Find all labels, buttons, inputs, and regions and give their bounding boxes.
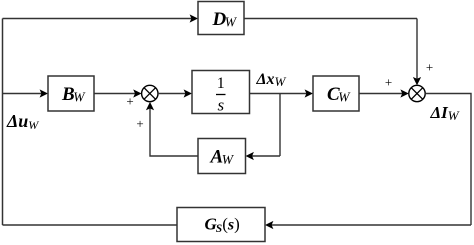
wire junction S2 output right and down (425, 94, 471, 226)
block D_W (198, 2, 244, 35)
block G_S(s) (177, 208, 265, 242)
svg-text:GS(s): GS(s) (205, 215, 240, 235)
svg-text:s: s (217, 96, 224, 115)
wire bottom feedback into G_S (271, 224, 471, 226)
block C_W (313, 76, 359, 111)
wire down into right summing junction (416, 19, 418, 80)
wire left vertical bus (2, 19, 4, 226)
svg-text:+: + (385, 75, 392, 90)
summing junction S1 (142, 85, 158, 101)
wire top line to D_W (3, 18, 193, 20)
wire B_W to left summing junction (94, 93, 136, 95)
wire input line to B_W (3, 93, 43, 95)
svg-text:ΔxW: ΔxW (256, 71, 287, 89)
wire integrator output to C_W (250, 93, 308, 95)
svg-text:+: + (426, 60, 433, 75)
svg-text:+: + (126, 94, 133, 109)
wire D_W output to right (244, 18, 417, 20)
wire A_W output left and up to junction S1 (150, 108, 198, 156)
summing junction S2 (409, 85, 425, 101)
block B_W (48, 76, 94, 111)
wire C_W to right summing junction (359, 93, 403, 95)
block A_W (198, 139, 246, 174)
svg-text:+: + (136, 116, 143, 131)
wire branch into A_W (252, 155, 281, 157)
wire junction S1 to integrator (158, 93, 186, 95)
block integrator 1/s (192, 71, 250, 115)
svg-text:1: 1 (217, 75, 225, 92)
wire G_S output to left bus (3, 224, 178, 226)
wire branch down from x_W node (279, 94, 281, 157)
